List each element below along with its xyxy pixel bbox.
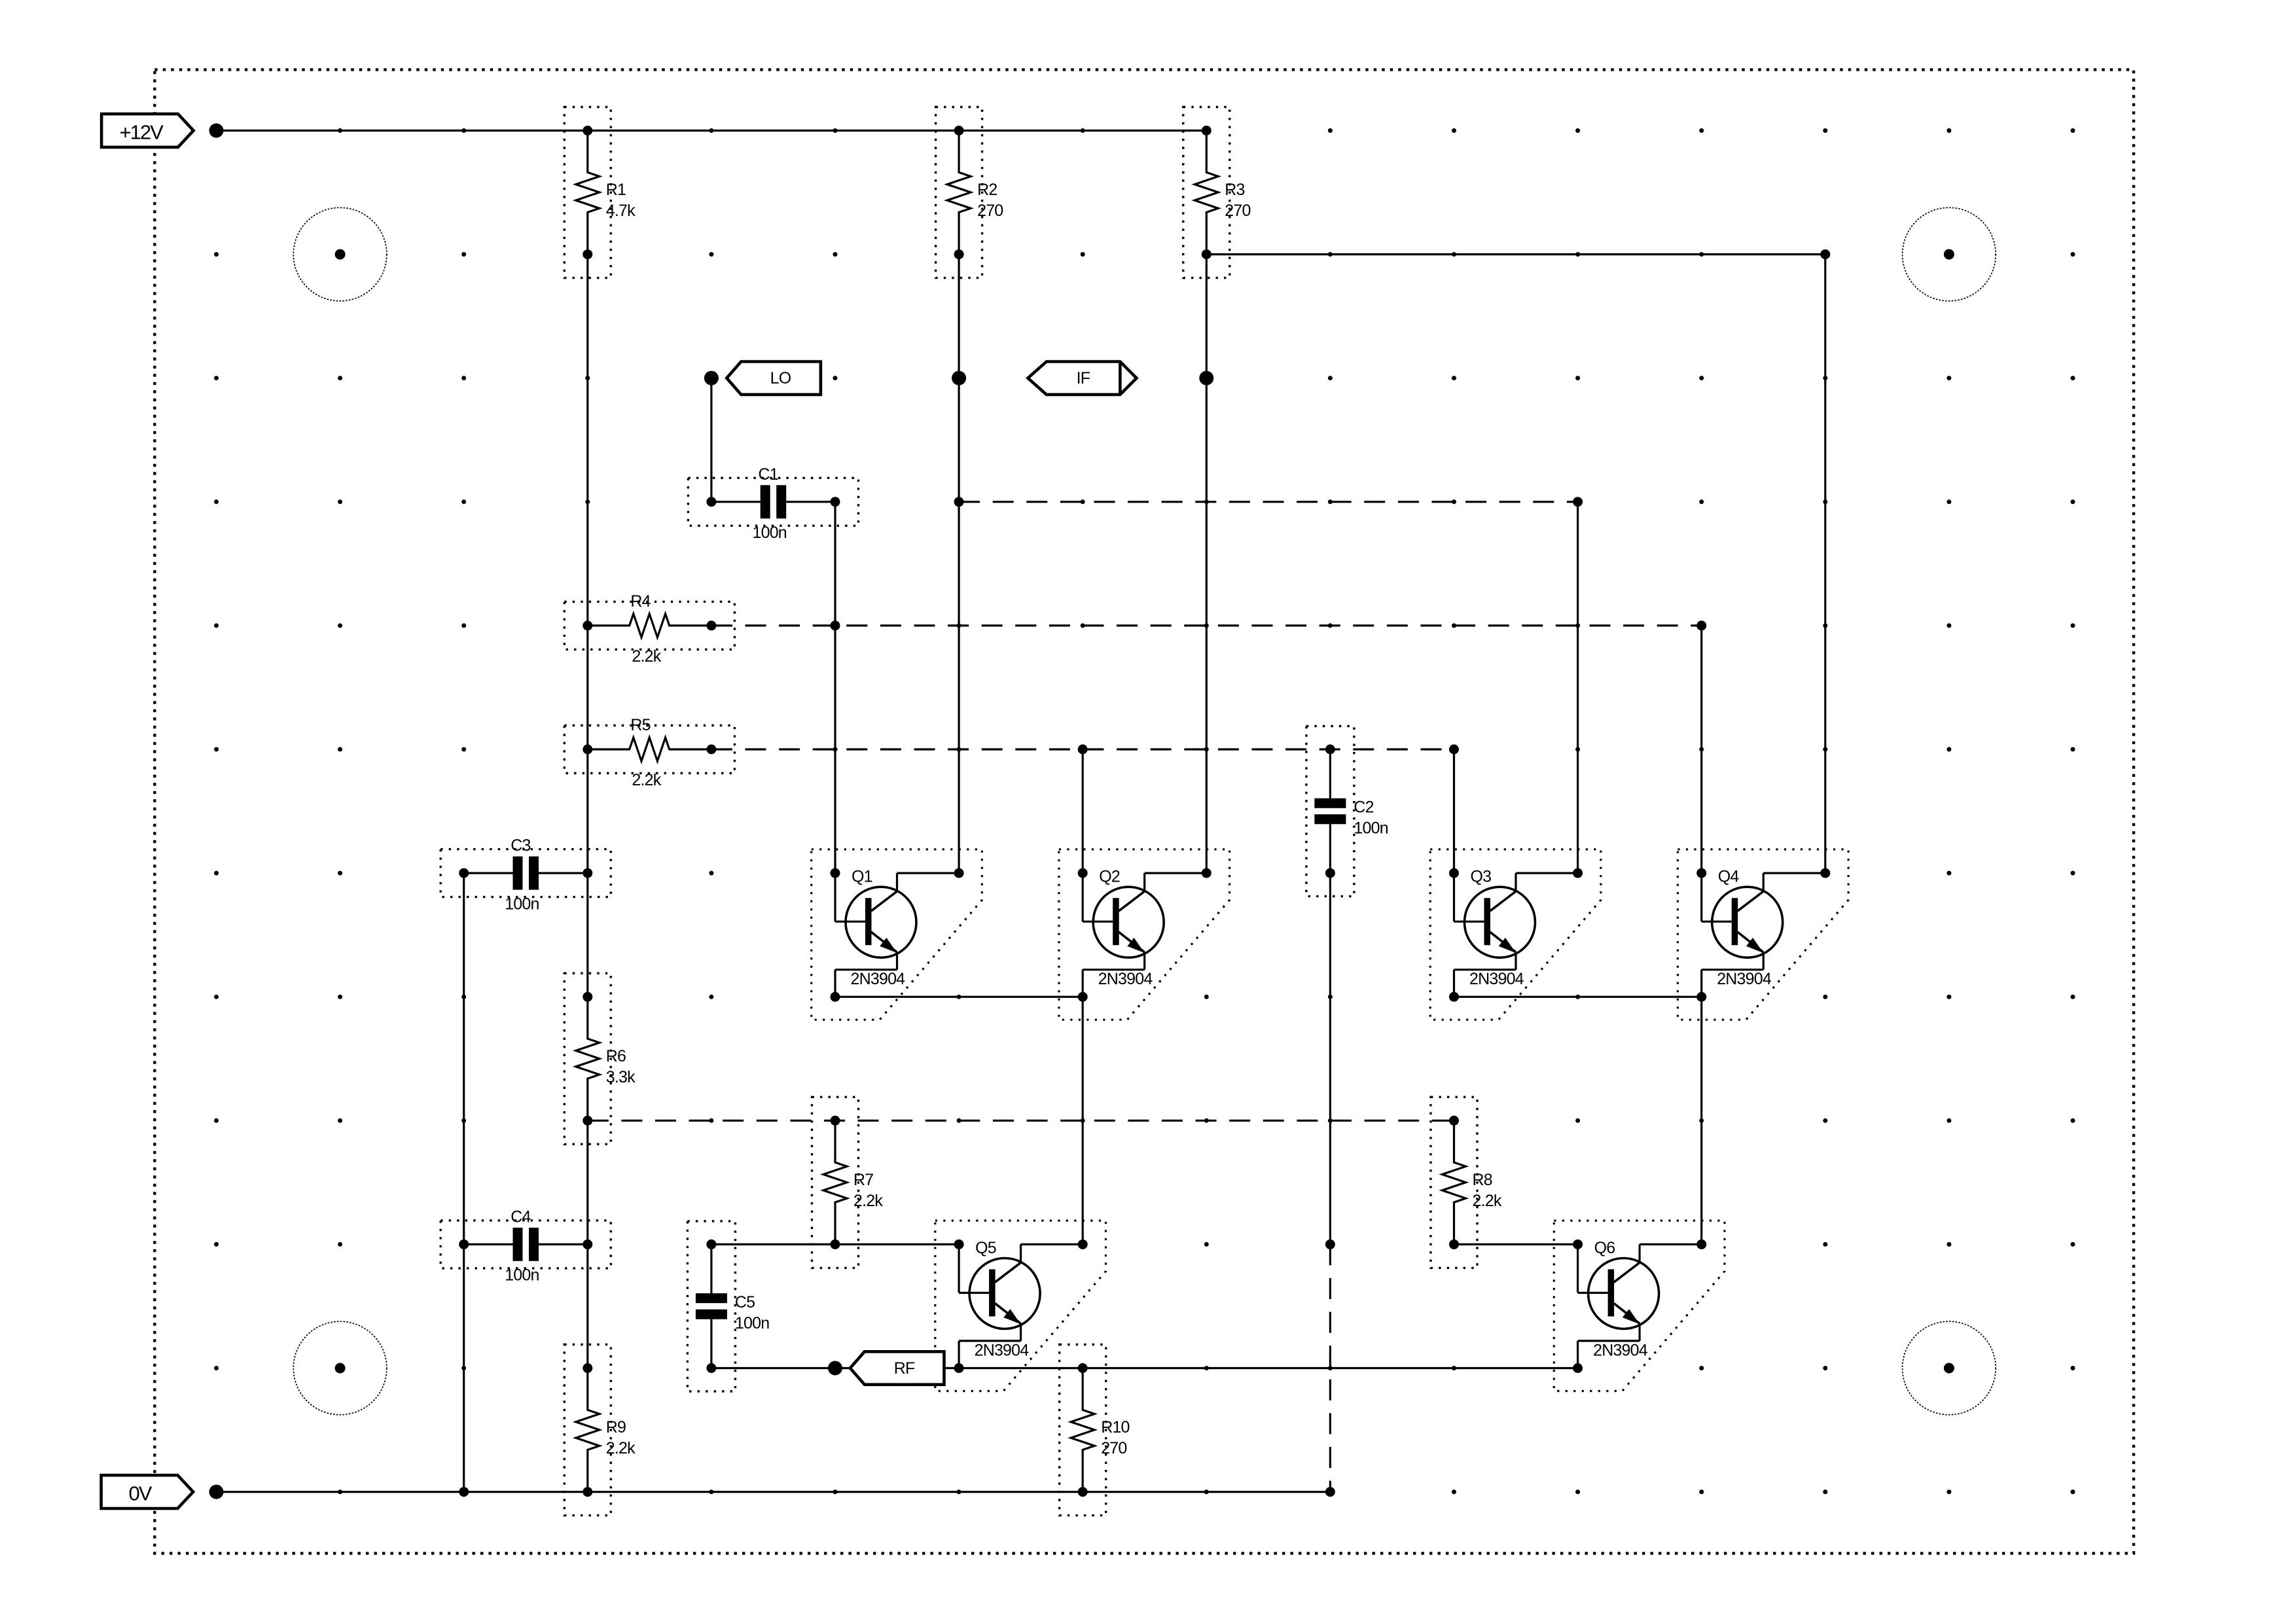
svg-text:270: 270 (1101, 1439, 1126, 1457)
svg-text:Q3: Q3 (1471, 868, 1492, 886)
wire Q6 collector jog (1640, 1243, 1702, 1245)
capacitor C5 (687, 1221, 769, 1391)
wire emitter jog vertical (834, 970, 836, 997)
svg-text:R9: R9 (606, 1418, 626, 1436)
svg-text:3.3k: 3.3k (606, 1068, 636, 1086)
junction (954, 497, 964, 507)
junction (1820, 249, 1830, 259)
capacitor C4 (440, 1207, 611, 1284)
resistor R3 (1183, 107, 1251, 278)
capacitor C1 (688, 465, 858, 542)
junction (1449, 992, 1459, 1002)
wire Q3 collector jog (1516, 872, 1578, 874)
svg-text:2N3904: 2N3904 (1469, 970, 1524, 988)
wire C3/C4 left column to 0V (463, 873, 465, 1492)
wire R3 to Q4 collector (top) (1206, 253, 1825, 255)
wire emitter jog vertical (1082, 970, 1084, 997)
svg-text:2.2k: 2.2k (632, 771, 661, 789)
wire LO bias net (dashed) (588, 1120, 1454, 1122)
junction (1078, 868, 1088, 878)
wire Q5 emitter jog horizontal (959, 1340, 1021, 1342)
junction (831, 620, 840, 630)
svg-text:2N3904: 2N3904 (1098, 970, 1153, 988)
resistor R1 (564, 107, 636, 278)
junction (954, 1240, 964, 1249)
mounting hole (293, 1321, 387, 1415)
wire Q5 collector jog (1021, 1243, 1083, 1245)
svg-text:100n: 100n (1354, 819, 1388, 838)
wire Q6 emitter jog vertical (1577, 1341, 1579, 1368)
transistor Q2 (2N3904 NPN) (1059, 849, 1230, 1020)
wire Q6 base drop (1577, 1244, 1579, 1293)
junction (1078, 1240, 1088, 1249)
svg-text:Q6: Q6 (1594, 1239, 1615, 1257)
svg-text:C2: C2 (1354, 798, 1373, 817)
svg-text:2.2k: 2.2k (606, 1439, 636, 1457)
wire top rail down to Q4 collector (1824, 255, 1826, 874)
power flag 0V (101, 1475, 194, 1508)
wire R3 bottom to Q2 collector (1206, 255, 1208, 874)
wire emitter jog horizontal (1083, 969, 1145, 971)
wire LO to C1 (710, 378, 712, 502)
resistor R8 (1431, 1097, 1502, 1268)
junction (1573, 1363, 1583, 1373)
svg-text:R8: R8 (1473, 1171, 1492, 1189)
wire R6 bottom to R9 top (586, 1120, 588, 1368)
svg-text:R6: R6 (606, 1047, 626, 1065)
wire IF dashed end down to Q3 collector (1577, 502, 1579, 873)
svg-text:100n: 100n (753, 524, 787, 542)
svg-text:R10: R10 (1101, 1418, 1129, 1436)
power flag +12V (101, 114, 194, 147)
wire RF net (711, 1367, 1578, 1369)
resistor R7 (812, 1097, 884, 1268)
junction (net dot) (209, 124, 224, 138)
wire Q4 collector jog (1763, 872, 1825, 874)
wire C2 bottom down (1329, 873, 1331, 1244)
wire R8 bottom to Q6 base (1454, 1243, 1578, 1245)
svg-text:270: 270 (977, 202, 1003, 220)
resistor R10 (1060, 1345, 1130, 1516)
svg-text:2.2k: 2.2k (632, 647, 661, 666)
net flag LO (726, 362, 821, 395)
svg-text:2.2k: 2.2k (1473, 1192, 1502, 1210)
resistor R6 (564, 973, 636, 1144)
wire emitter jog horizontal (1702, 969, 1764, 971)
transistor Q4 (2N3904 NPN) (1677, 849, 1848, 1020)
wire LO-A dashed end down to Q4 base (1700, 626, 1702, 921)
svg-text:2N3904: 2N3904 (975, 1342, 1030, 1360)
svg-text:0V: 0V (129, 1482, 152, 1505)
wire emitter jog horizontal (835, 969, 897, 971)
svg-text:100n: 100n (505, 895, 539, 913)
svg-text:R5: R5 (630, 716, 650, 734)
svg-text:Q1: Q1 (852, 868, 872, 886)
wire Q6 emitter jog horizontal (1578, 1340, 1640, 1342)
svg-text:R4: R4 (630, 592, 651, 611)
junction (1820, 868, 1830, 878)
wire LO-B dashed end down to Q3 base (1453, 749, 1455, 921)
wire emitter jog horizontal (1454, 969, 1516, 971)
net flag RF (850, 1351, 944, 1384)
mounting hole (1903, 207, 1996, 301)
resistor R2 (936, 107, 1003, 278)
svg-text:R3: R3 (1225, 181, 1244, 199)
svg-text:2N3904: 2N3904 (1717, 970, 1772, 988)
wire C1 to Q1 base (834, 502, 836, 921)
svg-text:LO: LO (770, 369, 791, 387)
transistor Q5 (2N3904 NPN) (935, 1221, 1106, 1391)
svg-text:C4: C4 (511, 1207, 531, 1226)
capacitor C2 (1306, 726, 1388, 897)
wire R1 bottom to R6 top (586, 255, 588, 997)
net flag IF (1028, 362, 1137, 395)
junction (net dot) (952, 371, 966, 385)
junction (net dot) (704, 371, 719, 385)
mounting hole (1903, 1321, 1996, 1415)
svg-text:+12V: +12V (120, 121, 164, 144)
wire Q3-Q4 emitters (1454, 996, 1702, 998)
svg-text:100n: 100n (735, 1314, 769, 1332)
svg-text:R1: R1 (606, 181, 626, 199)
junction (1696, 992, 1706, 1002)
wire LO-B to Q2 base (1082, 749, 1084, 921)
svg-text:2N3904: 2N3904 (1593, 1342, 1648, 1360)
mounting hole (293, 207, 387, 301)
junction (1325, 1487, 1335, 1497)
junction (net dot) (209, 1485, 224, 1499)
svg-text:R2: R2 (977, 181, 997, 199)
wire Q4 emitters down to Q6 collector (1700, 997, 1702, 1244)
junction (1449, 868, 1459, 878)
resistor R4 (564, 592, 734, 666)
svg-text:Q2: Q2 (1099, 868, 1120, 886)
junction (net dot) (828, 1361, 842, 1376)
junction (1573, 497, 1583, 507)
junction (1449, 745, 1459, 755)
transistor Q1 (2N3904 NPN) (812, 849, 982, 1020)
wire C5 top / R7 bottom to Q5 base (711, 1243, 959, 1245)
junction (1696, 620, 1706, 630)
svg-text:C3: C3 (511, 836, 530, 855)
wire emitter jog vertical (1453, 970, 1455, 997)
junction (831, 868, 840, 878)
svg-text:2N3904: 2N3904 (851, 970, 906, 988)
capacitor C3 (440, 836, 611, 913)
junction (1202, 868, 1211, 878)
resistor R9 (564, 1345, 636, 1516)
junction (1573, 868, 1583, 878)
junction (1573, 1240, 1583, 1249)
svg-text:C1: C1 (759, 465, 778, 484)
junction (1078, 745, 1088, 755)
svg-text:Q5: Q5 (975, 1239, 996, 1257)
wire R2 bottom to Q1 collector (958, 255, 960, 874)
junction (954, 868, 964, 878)
junction (1078, 992, 1088, 1002)
svg-text:IF: IF (1077, 369, 1090, 387)
transistor Q6 (2N3904 NPN) (1554, 1221, 1725, 1391)
junction (net dot) (1199, 371, 1213, 385)
junction (954, 1363, 964, 1373)
wire Q2 emitters down to Q5 collector (1082, 997, 1084, 1244)
wire Q5 emitter jog vertical (958, 1341, 960, 1368)
wire emitter jog vertical (1700, 970, 1702, 997)
wire +12V rail (217, 130, 1207, 132)
wire LO-B net (dashed) (711, 748, 1454, 750)
junction (1696, 1240, 1706, 1249)
wire Q2 collector jog (1145, 872, 1207, 874)
transistor Q3 (2N3904 NPN) (1430, 849, 1601, 1020)
svg-text:2.2k: 2.2k (853, 1192, 883, 1210)
svg-text:4.7k: 4.7k (606, 202, 636, 220)
junction (1325, 1240, 1335, 1249)
wire Q1 collector jog (897, 872, 960, 874)
svg-text:100n: 100n (505, 1266, 539, 1285)
svg-text:Q4: Q4 (1718, 868, 1740, 886)
svg-text:R7: R7 (853, 1171, 873, 1189)
resistor R5 (564, 716, 734, 789)
junction (831, 992, 840, 1002)
wire C2 bottom to 0V (dashed) (1329, 1244, 1331, 1491)
wire LO-A net (dashed) (711, 624, 1702, 626)
junction (459, 1487, 469, 1497)
wire Q1-Q2 emitters (835, 996, 1083, 998)
junction (1696, 868, 1706, 878)
wire 0V rail (217, 1491, 1331, 1493)
svg-text:270: 270 (1225, 202, 1250, 220)
svg-text:RF: RF (894, 1359, 915, 1378)
svg-text:C5: C5 (735, 1293, 755, 1311)
wire Q5 base drop (958, 1244, 960, 1293)
wire IF net (dashed) (959, 501, 1578, 503)
